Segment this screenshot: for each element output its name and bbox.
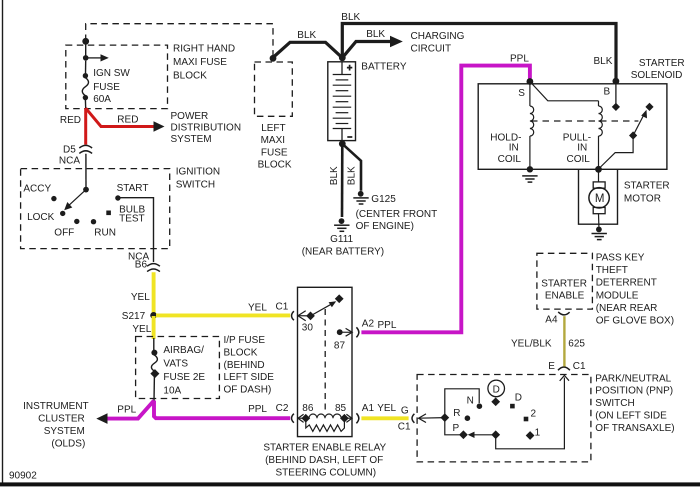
svg-text:30: 30 — [302, 322, 314, 333]
svg-text:IN: IN — [509, 143, 519, 154]
svg-text:LEFT SIDE: LEFT SIDE — [224, 372, 275, 383]
svg-text:DETERRENT: DETERRENT — [596, 278, 657, 289]
svg-text:YEL: YEL — [132, 324, 151, 335]
svg-text:YEL: YEL — [248, 302, 267, 313]
pass key theft deterrent module (dashed box) — [537, 253, 593, 309]
connector C1 at PNP pin G — [412, 414, 414, 423]
svg-text:BLK: BLK — [347, 166, 358, 185]
svg-text:(BEHIND: (BEHIND — [224, 360, 265, 371]
svg-text:RUN: RUN — [94, 228, 116, 239]
svg-text:RED: RED — [117, 115, 138, 126]
svg-text:B6: B6 — [135, 260, 148, 271]
PNP bracket to N contact — [445, 389, 479, 418]
starter solenoid (box) — [478, 84, 667, 170]
svg-text:ENABLE: ENABLE — [545, 291, 585, 302]
svg-text:FUSE: FUSE — [93, 82, 120, 93]
svg-text:D5: D5 — [63, 144, 76, 155]
svg-text:LOCK: LOCK — [27, 212, 55, 223]
wire START to NCA/B6 connector — [120, 198, 154, 262]
wire YEL relay A1 to PNP switch — [361, 416, 408, 420]
svg-text:BATTERY: BATTERY — [361, 62, 407, 73]
node N — [477, 403, 483, 409]
relay pin 87 contact — [337, 329, 343, 335]
label BLK ground wires — [329, 166, 358, 185]
svg-text:IGN SW: IGN SW — [93, 68, 130, 79]
node: fuse tap with arrow — [83, 55, 89, 61]
svg-text:BLK: BLK — [329, 166, 340, 185]
svg-text:SYSTEM: SYSTEM — [44, 426, 85, 437]
svg-text:85: 85 — [335, 403, 347, 414]
svg-text:YEL: YEL — [131, 292, 150, 303]
wire BLK battery to left maxi fuse block — [273, 42, 342, 58]
svg-text:PASS KEY: PASS KEY — [596, 253, 645, 264]
node P — [459, 430, 468, 439]
svg-text:CHARGING: CHARGING — [411, 31, 465, 42]
svg-text:IGNITION: IGNITION — [176, 166, 220, 177]
svg-text:COIL: COIL — [567, 154, 591, 165]
node D (drive circle) — [488, 380, 505, 397]
svg-text:C1: C1 — [573, 361, 586, 372]
connector NCA B6 — [147, 264, 160, 267]
svg-text:87: 87 — [334, 341, 346, 352]
node BULB TEST — [106, 211, 111, 216]
svg-text:OFF: OFF — [54, 228, 74, 239]
svg-text:INSTRUMENT: INSTRUMENT — [23, 401, 89, 412]
svg-text:BLK: BLK — [594, 56, 613, 67]
solenoid linkage dashed — [531, 120, 638, 122]
node START — [115, 195, 120, 200]
svg-text:A2: A2 — [362, 318, 375, 329]
svg-text:C1: C1 — [276, 302, 289, 313]
svg-text:(BEHIND DASH, LEFT OF: (BEHIND DASH, LEFT OF — [265, 455, 383, 466]
hold-in coil — [529, 85, 531, 107]
svg-text:1: 1 — [535, 427, 541, 438]
wire dashed fuse-block bus (top left) — [86, 24, 273, 57]
wire BLK battery to charging circuit — [342, 42, 390, 58]
relay coil pins 86/85 — [298, 414, 304, 422]
svg-text:S217: S217 — [122, 311, 146, 322]
connector A2 — [356, 327, 358, 337]
svg-text:PPL: PPL — [378, 320, 397, 331]
node: hold-in coil ground junction — [527, 166, 533, 172]
wire RED to power distribution — [86, 108, 154, 126]
connector C2 — [292, 414, 294, 423]
relay armature dashed link — [324, 309, 326, 414]
wire YEL S217 to relay C1 — [156, 313, 290, 317]
svg-text:10A: 10A — [163, 385, 181, 396]
wire to PNP output E — [496, 378, 565, 449]
right hand maxi fuse block (dashed box) — [66, 45, 168, 109]
svg-text:PARK/NEUTRAL: PARK/NEUTRAL — [595, 373, 671, 384]
svg-text:(CENTER FRONT: (CENTER FRONT — [356, 209, 438, 220]
wire RED down to D5 — [84, 108, 87, 144]
relay coil winding — [306, 421, 345, 432]
node OFF — [74, 219, 79, 224]
battery plates — [341, 62, 343, 75]
svg-text:PPL: PPL — [117, 404, 136, 415]
svg-text:BLK: BLK — [366, 29, 385, 40]
svg-text:STARTER: STARTER — [639, 58, 685, 69]
svg-text:THEFT: THEFT — [596, 265, 628, 276]
wire PPL to instrument cluster — [107, 401, 154, 419]
svg-text:D: D — [515, 393, 522, 404]
svg-text:STARTER: STARTER — [624, 180, 670, 191]
I/P fuse block (dashed box) — [136, 337, 220, 399]
svg-text:YEL/BLK: YEL/BLK — [511, 338, 552, 349]
svg-text:86: 86 — [302, 403, 314, 414]
svg-text:STARTER: STARTER — [541, 279, 587, 290]
bottom page border — [0, 482, 700, 486]
svg-text:CIRCUIT: CIRCUIT — [411, 43, 452, 54]
park/neutral position switch (dashed box) — [417, 375, 591, 462]
svg-text:POSITION (PNP): POSITION (PNP) — [595, 386, 673, 397]
ground (hold-in coil) — [522, 175, 537, 177]
pull-in coil — [598, 101, 600, 106]
wire BLK battery to G111 — [341, 144, 344, 217]
svg-text:SOLENOID: SOLENOID — [631, 70, 683, 81]
node: battery + junction — [339, 54, 346, 61]
svg-text:RED: RED — [60, 115, 81, 126]
svg-text:POWER: POWER — [171, 111, 209, 122]
svg-text:(ON LEFT SIDE: (ON LEFT SIDE — [595, 411, 667, 422]
svg-text:DISTRIBUTION: DISTRIBUTION — [171, 123, 242, 134]
svg-text:FUSE: FUSE — [261, 147, 288, 158]
wire PPL to starter enable relay C2 — [154, 401, 290, 419]
svg-text:(NEAR REAR: (NEAR REAR — [596, 303, 658, 314]
svg-text:START: START — [117, 183, 149, 194]
connector E / C1 — [558, 367, 570, 370]
svg-text:ACCY: ACCY — [23, 183, 51, 194]
svg-text:OF ENGINE): OF ENGINE) — [356, 221, 414, 232]
ignition switch (dashed box) — [21, 169, 170, 249]
node B terminal — [613, 78, 620, 85]
ground G111 — [339, 218, 345, 224]
node S217 — [150, 312, 157, 319]
wire PPL relay 87 to solenoid S — [361, 66, 530, 333]
svg-text:IN: IN — [577, 143, 587, 154]
svg-text:NCA: NCA — [59, 156, 80, 167]
node: motor junction — [595, 166, 602, 173]
svg-text:STEERING COLUMN): STEERING COLUMN) — [276, 467, 377, 478]
connector C1 at relay pin 30 — [292, 311, 294, 320]
svg-text:60A: 60A — [93, 94, 111, 105]
svg-text:SWITCH: SWITCH — [595, 398, 634, 409]
svg-text:BLOCK: BLOCK — [224, 347, 258, 358]
svg-text:RIGHT HAND: RIGHT HAND — [173, 44, 235, 55]
node S terminal — [527, 78, 534, 85]
node: junction at left maxi fuse block — [270, 55, 277, 62]
starter enable relay (box) — [298, 287, 353, 436]
connector A1 — [356, 413, 358, 423]
node R — [465, 415, 471, 421]
wire YEL S217 down into I/P fuse block — [152, 316, 156, 339]
svg-text:SYSTEM: SYSTEM — [171, 134, 212, 145]
ground G125 — [358, 191, 364, 197]
svg-text:CLUSTER: CLUSTER — [38, 414, 85, 425]
connector D5 — [79, 145, 92, 148]
node LOCK — [60, 211, 65, 216]
svg-text:C2: C2 — [276, 403, 289, 414]
ignition switch wiper arm — [83, 187, 89, 193]
svg-text:G111: G111 — [330, 234, 353, 245]
svg-text:D: D — [493, 384, 500, 395]
node: junction dot above fuse — [82, 38, 89, 45]
svg-text:(OLDS): (OLDS) — [51, 438, 85, 449]
battery thick BLK wire to solenoid B (top) — [342, 24, 616, 81]
left page border — [2, 0, 4, 483]
svg-text:S: S — [518, 88, 525, 99]
relay pin 30 contact arm — [298, 311, 306, 321]
svg-text:VATS: VATS — [163, 358, 188, 369]
PNP lower path through P contact — [445, 418, 460, 435]
wire D5 to ignition switch — [85, 154, 87, 190]
motor M — [598, 169, 600, 182]
wire from junction into fuse — [85, 41, 87, 58]
svg-text:2: 2 — [531, 409, 537, 420]
wire YEL to S217 — [152, 272, 156, 316]
wire BLK battery to G125 — [342, 144, 361, 191]
wire S to pull-in coil — [530, 82, 599, 101]
svg-text:PPL: PPL — [248, 404, 267, 415]
connector A4 — [558, 312, 569, 315]
solenoid switch arm — [629, 131, 637, 139]
svg-text:A1: A1 — [362, 403, 375, 414]
ground (starter motor) — [596, 227, 602, 233]
svg-text:BLOCK: BLOCK — [258, 160, 292, 171]
svg-text:A4: A4 — [545, 314, 558, 325]
svg-text:C1: C1 — [398, 421, 411, 432]
wire YEL/BLK 625 — [563, 316, 565, 366]
node RUN — [91, 219, 96, 224]
svg-text:N: N — [467, 396, 474, 407]
svg-text:E: E — [548, 361, 555, 372]
svg-text:MOTOR: MOTOR — [624, 194, 661, 205]
svg-text:G: G — [401, 405, 409, 416]
node 2 — [524, 417, 529, 422]
svg-text:MAXI FUSE: MAXI FUSE — [173, 57, 227, 68]
svg-text:LEFT: LEFT — [261, 123, 285, 134]
svg-text:MAXI: MAXI — [261, 135, 285, 146]
svg-text:YEL: YEL — [377, 403, 396, 414]
svg-text:STARTER ENABLE RELAY: STARTER ENABLE RELAY — [263, 443, 386, 454]
node 1 — [526, 431, 535, 440]
svg-text:OF DASH): OF DASH) — [224, 385, 272, 396]
svg-text:(NEAR BATTERY): (NEAR BATTERY) — [302, 247, 384, 258]
PNP wiper input arm — [419, 414, 427, 423]
left maxi fuse block (dashed box) — [255, 62, 293, 116]
svg-text:BLOCK: BLOCK — [173, 71, 207, 82]
svg-text:AIRBAG/: AIRBAG/ — [163, 345, 204, 356]
svg-text:M: M — [595, 193, 605, 205]
svg-text:SWITCH: SWITCH — [176, 180, 215, 191]
svg-text:B: B — [604, 87, 611, 98]
svg-text:PPL: PPL — [510, 54, 529, 65]
solenoid B contact — [615, 84, 617, 104]
svg-text:BLK: BLK — [341, 12, 360, 23]
svg-text:90902: 90902 — [9, 471, 37, 482]
svg-text:625: 625 — [568, 338, 585, 349]
svg-text:MODULE: MODULE — [596, 290, 639, 301]
node: battery - junction — [339, 140, 346, 147]
fuse IGN SW FUSE 60A — [85, 61, 87, 74]
battery — [328, 62, 356, 141]
svg-text:OF GLOVE BOX): OF GLOVE BOX) — [596, 316, 674, 327]
svg-text:I/P FUSE: I/P FUSE — [224, 335, 266, 346]
svg-text:COIL: COIL — [498, 154, 522, 165]
svg-text:BLK: BLK — [297, 30, 316, 41]
node ACCY — [51, 196, 56, 201]
node D (manual) — [510, 404, 515, 409]
svg-text:P: P — [453, 423, 460, 434]
starter motor bracket — [579, 169, 618, 224]
fuse AIRBAG/VATS FUSE 2E 10A — [153, 338, 155, 350]
svg-text:G125: G125 — [371, 194, 396, 205]
svg-text:R: R — [453, 408, 460, 419]
svg-text:OF TRANSAXLE): OF TRANSAXLE) — [595, 423, 674, 434]
svg-text:FUSE 2E: FUSE 2E — [163, 372, 205, 383]
svg-text:TEST: TEST — [119, 214, 145, 225]
